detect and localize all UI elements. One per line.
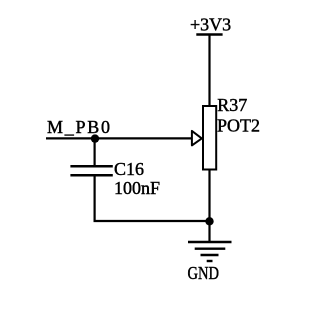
potentiometer R37 body [203, 106, 216, 170]
capacitor C16 top plate [70, 165, 112, 168]
ground symbol bar 4 [207, 260, 213, 262]
wire junction to capacitor [93, 138, 95, 165]
ground symbol bar 1 [188, 241, 232, 243]
junction node at M_PB0/C16 [91, 134, 99, 142]
svg-text:POT2: POT2 [217, 116, 260, 136]
svg-text:GND: GND [188, 263, 220, 283]
junction node at ground [205, 217, 213, 225]
svg-text:M_PB0: M_PB0 [47, 117, 110, 137]
ground symbol bar 2 [195, 247, 226, 249]
power symbol bar [196, 33, 222, 35]
wiper arrow of potentiometer [192, 131, 202, 146]
capacitor C16 bottom plate [70, 174, 112, 177]
ground symbol bar 3 [201, 254, 219, 256]
svg-text:100nF: 100nF [114, 178, 160, 198]
wire capacitor bottom to ground junction [95, 176, 210, 221]
wire M_PB0 to wiper arrow [46, 137, 192, 139]
svg-text:+3V3: +3V3 [190, 15, 231, 35]
svg-text:R37: R37 [217, 95, 247, 115]
wire from +3V3 to potentiometer top [208, 35, 210, 107]
wire potentiometer bottom to ground [208, 170, 210, 242]
svg-text:C16: C16 [114, 159, 144, 179]
